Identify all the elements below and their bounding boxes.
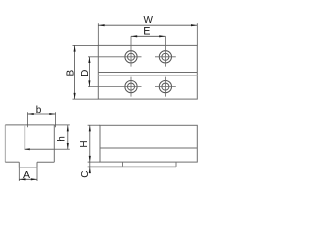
side view top edge [5,124,54,126]
side view left edge [4,125,6,162]
dimension h top extension [54,124,70,126]
dimension b right arrow [49,113,55,115]
dimension W left arrow [98,24,104,26]
hole bottom-right inner circle [162,83,169,90]
dimension h bottom arrow [67,143,69,149]
dimension H bottom extension [88,161,100,163]
svg-text:E: E [143,26,150,38]
dimension D line [88,57,90,87]
dimension h top arrow [67,125,69,131]
front view tongue right side [175,162,177,167]
center line row2 right hole [155,86,176,88]
dimension B top extension [73,44,99,46]
plan view thin serration line [98,75,197,77]
plan view step edge line [98,72,197,74]
svg-text:b: b [36,105,42,116]
svg-text:h: h [57,136,68,142]
dimension b right extension [55,112,57,127]
dimension b line [28,113,56,115]
center line vertical top-right hole (also E extension) [164,36,166,66]
hole top-right outer circle [159,51,171,63]
side view tongue bottom [19,167,37,169]
side view tongue right side [36,162,38,167]
dimension B line [74,45,76,99]
hole top-left inner circle [128,53,135,60]
dimension W line [98,24,197,26]
dimension b left arrow [28,113,34,115]
center line vertical bottom-left hole [130,77,132,97]
side view bottom edge left segment [5,161,19,163]
dimension E line [131,35,165,37]
dimension W right arrow [191,24,197,26]
dimension E right arrow [159,35,165,37]
center line vertical top-left hole (also E extension) [130,36,132,66]
front view tongue bottom [123,166,177,168]
dimension b left extension [27,112,29,127]
dimension A right extension [36,168,38,181]
front view body outline [100,125,197,162]
dimension h bottom extension [54,148,70,150]
dimension E left arrow [131,35,137,37]
dimension H line [89,125,91,162]
dimension H top extension [88,124,100,126]
center line vertical bottom-right hole [164,77,166,97]
plan view body outline [98,45,197,99]
front view tongue left side [122,162,124,167]
dimension H top arrow [89,125,91,131]
front view step edge line [100,147,197,149]
dimension h line [67,125,69,149]
svg-text:D: D [80,70,91,77]
side view tongue left side [18,162,20,167]
dimension A left extension [18,168,20,181]
svg-text:A: A [23,169,30,181]
step corner arrow [24,148,30,150]
side view right edge [53,125,55,162]
hole top-left outer circle [125,51,137,63]
svg-text:H: H [79,140,90,147]
side view step horizontal line [25,148,55,150]
hole bottom-left inner circle [128,83,135,90]
hole bottom-right outer circle [159,81,171,93]
side view step vertical line [24,125,26,149]
dimension C bottom arrow [89,167,91,173]
svg-text:C: C [80,170,91,177]
svg-text:B: B [65,70,76,77]
dimension D bottom arrow [88,80,90,86]
dimension A left arrow [19,178,25,180]
dimension B bottom extension [73,98,99,100]
dimension W right extension [196,23,198,45]
dimension C bottom extension [88,166,123,168]
svg-text:W: W [143,15,153,26]
dimension B bottom arrow [74,93,76,99]
hole top-right inner circle [162,53,169,60]
dimension A right arrow [31,178,37,180]
center line row2 (also D extension) [88,86,142,88]
dimension C line tail [89,162,91,172]
dimension A line [19,178,37,180]
hole bottom-left outer circle [125,81,137,93]
dimension W left extension [97,23,99,45]
center line row1 (also D extension) [88,56,142,58]
side view bottom edge right segment [37,161,54,163]
center line row1 right hole [155,56,176,58]
dimension H bottom arrow [89,156,91,162]
dimension B top arrow [74,45,76,51]
dimension D top arrow [88,57,90,63]
